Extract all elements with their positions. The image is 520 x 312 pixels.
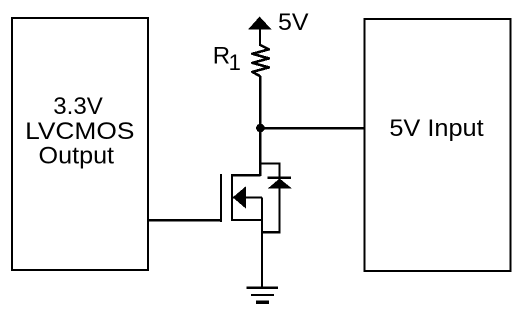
wire: diode branch vertical <box>279 162 281 233</box>
transistor Q1: channel bar <box>231 174 233 221</box>
diode: body diode cathode bar <box>268 177 291 179</box>
label: 3.3V LVCMOS Output <box>25 93 134 170</box>
power symbol: 5V supply arrow <box>248 17 272 30</box>
wire: 5V arrow to resistor <box>259 28 261 46</box>
label: R1 <box>213 43 241 75</box>
wire: node to 5V Input box <box>260 127 365 129</box>
block: 5V Input receiver box <box>365 19 511 271</box>
wire: resistor to node to MOSFET drain <box>259 76 261 176</box>
transistor Q1: bulk arrow horizontal wire <box>233 196 262 198</box>
svg-text:Output: Output <box>39 143 115 170</box>
svg-text:5V: 5V <box>278 9 309 36</box>
svg-text:5V Input: 5V Input <box>389 115 484 142</box>
ground: bottom bar <box>256 301 269 304</box>
transistor Q1: drain connection horizontal <box>231 174 260 176</box>
transistor Q1: bulk arrow head <box>233 186 246 208</box>
resistor R1 <box>252 45 269 76</box>
wire: gate to 3.3V LVCMOS Output box <box>148 219 223 221</box>
ground: top bar <box>246 287 278 289</box>
svg-text:LVCMOS: LVCMOS <box>25 118 134 145</box>
wire: source to ground <box>261 198 263 288</box>
wire: diode branch top <box>260 162 280 164</box>
wire: diode branch bottom <box>261 231 281 233</box>
svg-text:3.3V: 3.3V <box>53 93 103 120</box>
svg-text:1: 1 <box>229 50 241 75</box>
block: 3.3V LVCMOS Output driver box <box>12 18 148 270</box>
transistor Q1: gate bar <box>220 174 222 222</box>
transistor Q1: source connection horizontal <box>231 219 262 221</box>
diode: body diode triangle <box>268 179 292 189</box>
ground: middle bar <box>251 294 274 296</box>
node: drain junction dot <box>256 124 265 133</box>
svg-text:R: R <box>213 43 230 70</box>
